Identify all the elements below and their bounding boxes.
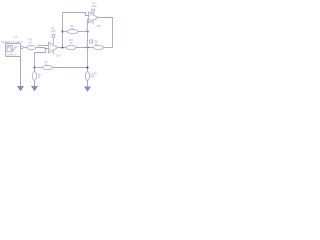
wire feedback vertical x62 [62,13,64,48]
svg-text:100: 100 [91,76,96,78]
ground GND1 [17,86,24,91]
wire top feedback to U2 inverting input [63,13,89,16]
resistor R3 [66,45,76,49]
resistor R6 [94,45,104,49]
wire U1 input to ground branch [35,49,46,53]
svg-text:-15V: -15V [56,55,61,58]
svg-text:R5: R5 [38,73,42,76]
wire y67 left segment [35,67,43,69]
op-amp U2 [89,12,99,23]
wire U1 inverting input [38,45,49,47]
junction node B at (87.5,47.5) [86,46,88,48]
op-amp U1 [49,42,59,53]
wire U1 output [58,47,66,49]
ground GND2 [31,86,38,91]
wire y31 left segment [63,31,68,33]
wire y67 right segment [53,67,88,69]
junction node at (62.5,31.5) [61,30,63,32]
svg-text:SINE(0 0.5 1kHz): SINE(0 0.5 1kHz) [1,41,23,44]
ground GND3 [84,87,91,92]
svg-text:+15V: +15V [91,5,97,8]
wire V1 output to R1 [23,47,27,49]
power flag +15V on U2 [92,9,95,12]
power flag +15V on U1 [52,35,55,38]
port flag out [90,40,93,43]
svg-text:1kHz 1V: 1kHz 1V [7,53,17,56]
resistor LOAD [85,72,89,81]
wire y31 right segment [78,31,88,33]
resistor R1 [27,45,36,49]
wire vertical branch x34 [34,53,36,72]
wire R1 to U1 non-inverting input [36,48,49,49]
svg-text:-15V: -15V [96,25,101,28]
svg-text:+15V: +15V [50,30,56,33]
junction node at (87.5,67.5) [86,66,88,68]
svg-text:V1: V1 [14,35,18,39]
junction node at (62.5,47.5) [61,46,63,48]
svg-text:R2: R2 [71,25,75,28]
svg-text:1k: 1k [38,77,41,79]
resistor R2 [67,29,78,33]
wire U2 V- pin [92,20,94,24]
svg-text:LOAD: LOAD [91,72,98,75]
wire LOAD to ground [87,80,89,86]
voltage source V1 [6,44,24,57]
wire right loop vertical and top [98,18,113,48]
resistor R5 [32,72,36,81]
wire V1 negative terminal down [20,57,22,87]
wire U2 V+ pin [92,12,94,15]
junction node at (87.5,31.5) [86,30,88,32]
wire R6 to right loop [104,47,113,49]
wire R3 to R6 [76,47,94,49]
wire U1 V- pin [53,51,55,55]
junction node at (34.5,67.5) [33,66,35,68]
wire R5 to ground [34,80,36,86]
wire U2 non-inverting input down x87 [88,20,89,72]
resistor R4 [43,65,53,69]
wire U1 V+ pin [53,37,55,44]
